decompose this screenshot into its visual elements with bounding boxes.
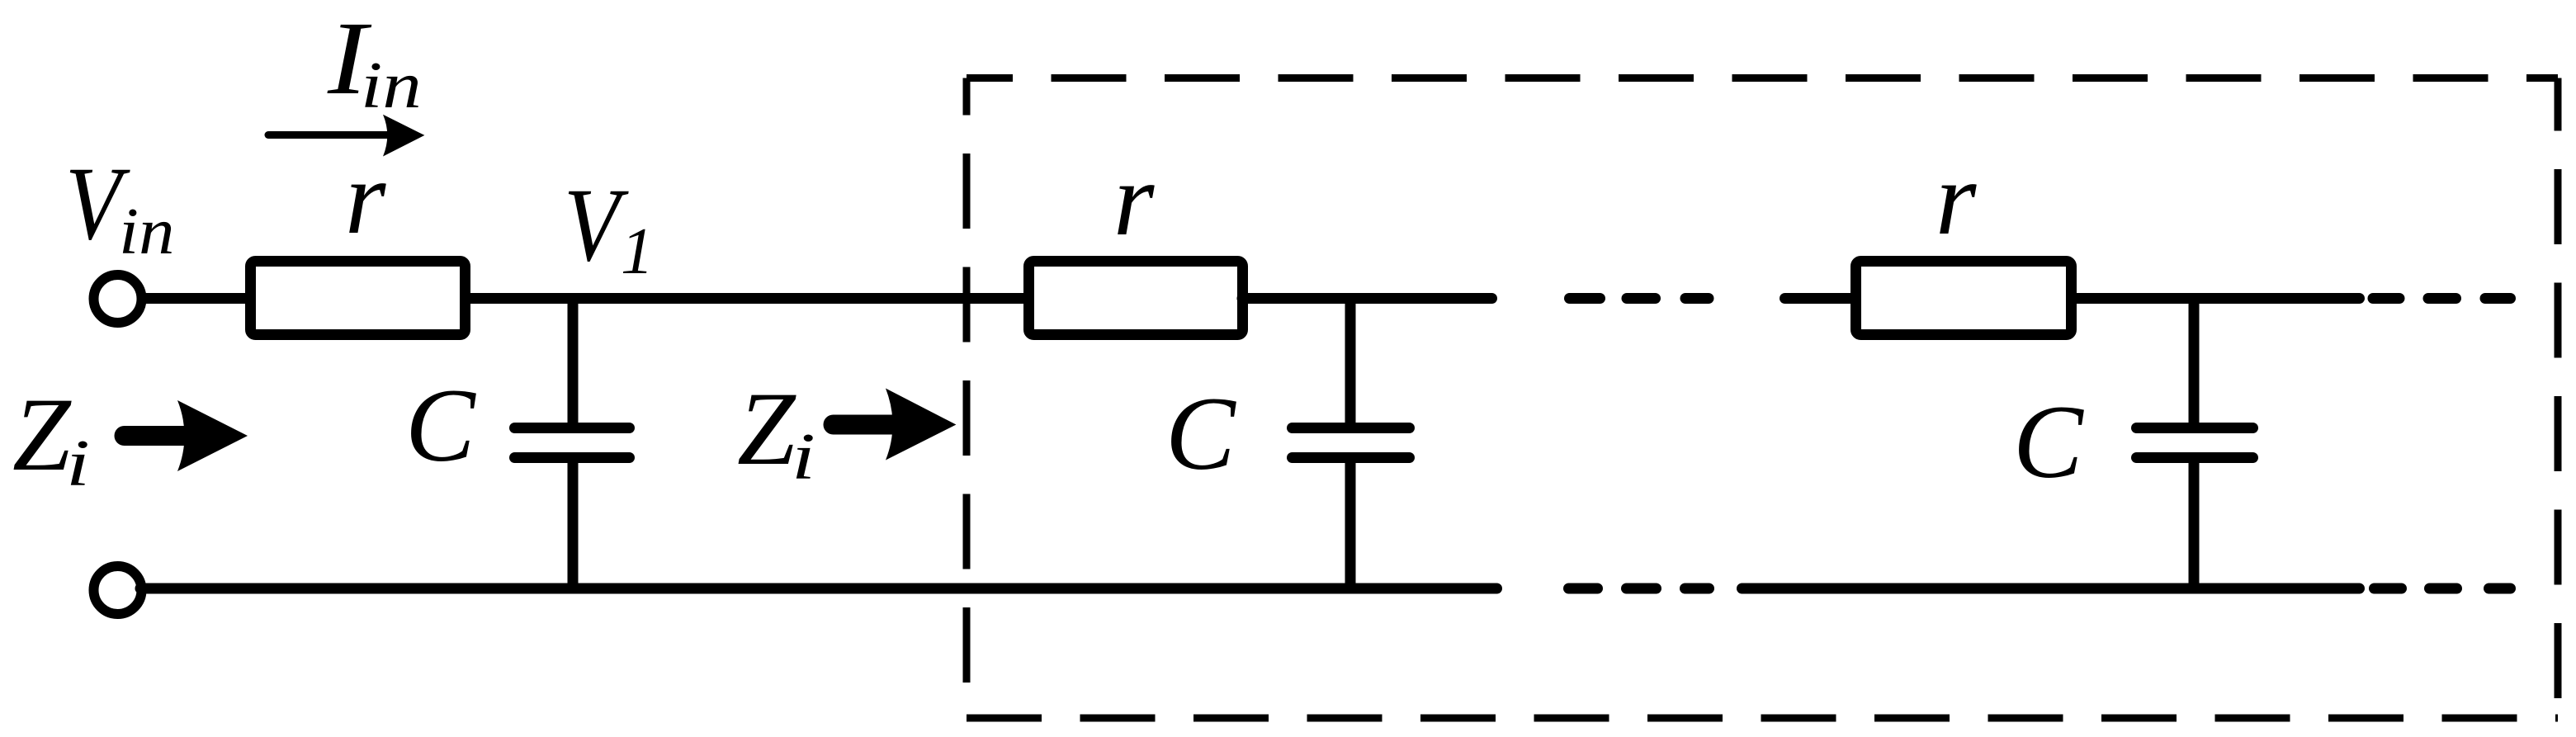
resistor r1 bbox=[251, 262, 466, 335]
svg-text:r: r bbox=[1936, 141, 1977, 257]
capacitor C3 top lead bbox=[2189, 293, 2200, 427]
dashed box left edge bbox=[963, 78, 971, 719]
wire top: terminal to resistor r1 bbox=[140, 293, 253, 304]
svg-text:Z: Z bbox=[737, 371, 796, 487]
svg-text:1: 1 bbox=[621, 215, 654, 288]
wire continuation dashes top right bbox=[2373, 293, 2399, 304]
capacitor C1 bottom lead bbox=[568, 458, 579, 593]
svg-text:C: C bbox=[405, 368, 476, 484]
svg-text:r: r bbox=[345, 140, 386, 256]
impedance arrow Zi 1 head bbox=[177, 400, 248, 471]
svg-text:r: r bbox=[1113, 142, 1155, 257]
capacitor C3 plates bbox=[2137, 423, 2253, 433]
current arrow Iin head bbox=[383, 115, 424, 157]
capacitor C2 bottom lead bbox=[1345, 458, 1356, 593]
input terminal top bbox=[94, 275, 142, 323]
wire: r3 output bbox=[2077, 293, 2360, 304]
wire continuation dashes bottom right bbox=[2375, 583, 2402, 594]
capacitor C3 bottom lead bbox=[2189, 458, 2200, 593]
wire continuation dashes bottom middle bbox=[1569, 583, 1598, 594]
resistor r3 bbox=[1856, 262, 2072, 335]
svg-text:C: C bbox=[2013, 385, 2084, 500]
resistor r2 bbox=[1029, 262, 1243, 335]
dashed box (repeated network cell) top edge bbox=[967, 74, 2558, 82]
svg-text:C: C bbox=[1165, 376, 1236, 492]
wire continuation dashes top middle bbox=[1570, 293, 1600, 304]
dashed box right edge bbox=[2555, 78, 2562, 719]
input terminal bottom bbox=[94, 566, 142, 614]
wire: into resistor r3 bbox=[1785, 293, 1856, 304]
impedance arrow Zi 1 shaft bbox=[125, 426, 195, 446]
capacitor C1 top lead bbox=[568, 293, 579, 427]
bottom rail wire right bbox=[1742, 583, 2360, 594]
capacitor C1 plates bbox=[515, 423, 630, 433]
dashed box bottom edge bbox=[967, 715, 2558, 722]
impedance arrow Zi 2 head bbox=[886, 389, 956, 461]
svg-text:in: in bbox=[361, 50, 422, 122]
svg-text:i: i bbox=[792, 421, 815, 494]
current arrow Iin shaft bbox=[268, 131, 388, 139]
svg-text:i: i bbox=[66, 428, 90, 500]
svg-text:Z: Z bbox=[12, 377, 72, 493]
capacitor C2 plates bbox=[1293, 423, 1410, 433]
impedance arrow Zi 2 shaft bbox=[834, 415, 896, 435]
bottom rail wire bbox=[140, 583, 1497, 594]
svg-text:V: V bbox=[564, 168, 629, 283]
capacitor C2 top lead bbox=[1345, 293, 1356, 427]
wire: r2 output bbox=[1242, 293, 1492, 304]
wire node V1: r1 to r2 bbox=[465, 293, 1029, 304]
svg-text:in: in bbox=[119, 196, 174, 268]
